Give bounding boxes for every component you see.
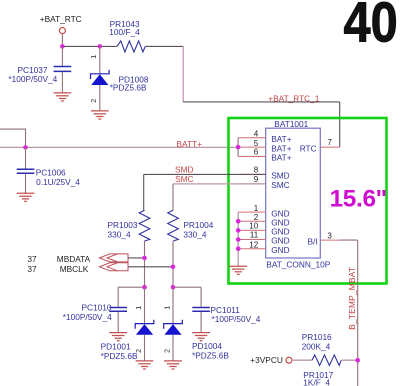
svg-text:BAT+: BAT+	[271, 153, 292, 163]
svg-text:*PDZ5.6B: *PDZ5.6B	[101, 351, 138, 361]
svg-text:15.6": 15.6"	[330, 185, 387, 212]
junction at PC1037	[60, 44, 65, 49]
svg-text:37: 37	[27, 264, 37, 274]
capacitor PC1006	[17, 147, 81, 193]
svg-text:MBCLK: MBCLK	[60, 264, 89, 274]
pin 10 BAT1001	[238, 221, 266, 230]
pin 11 BAT1001	[238, 231, 266, 240]
connector BAT1001 body	[266, 119, 331, 270]
junction at PD1008	[98, 44, 103, 49]
ground PC1010	[109, 333, 127, 341]
svg-text:SMD: SMD	[271, 171, 289, 181]
ground PD1004	[164, 361, 182, 369]
wire +BAT_RTC drop	[61, 33, 63, 46]
junction BATT+ at bar	[236, 145, 241, 150]
svg-text:200K_4: 200K_4	[302, 342, 331, 352]
svg-text:SMD: SMD	[175, 164, 193, 174]
zener diode PD1004	[163, 287, 230, 360]
wire GND bar	[237, 212, 239, 266]
wire PR1003 down	[144, 241, 146, 287]
svg-text:330_4: 330_4	[108, 230, 131, 240]
svg-text:10: 10	[249, 221, 258, 230]
svg-text:PD1001: PD1001	[101, 341, 131, 351]
junction GND bar 230.4	[236, 228, 241, 233]
wire top rail	[62, 45, 117, 47]
svg-text:BAT1001: BAT1001	[274, 119, 308, 129]
wire SMD	[144, 174, 266, 210]
resistor PR1004	[168, 210, 214, 241]
wire PR1043 to corner	[145, 45, 183, 47]
svg-text:+BAT_RTC: +BAT_RTC	[40, 14, 82, 24]
svg-text:BAT_CONN_10P: BAT_CONN_10P	[266, 259, 330, 269]
svg-text:*100P/50V_4: *100P/50V_4	[63, 312, 112, 322]
off-page connector MBDATA	[27, 254, 128, 264]
wire to PC1010	[118, 286, 144, 288]
svg-text:1K/F_4: 1K/F_4	[303, 378, 330, 386]
resistor PR1017 labels	[303, 370, 333, 386]
svg-text:330_4: 330_4	[183, 230, 206, 240]
zener diode PD1001	[101, 287, 154, 361]
junction PD1004 top	[171, 285, 176, 290]
wire +BAT_RTC_1 horizontal	[183, 101, 340, 103]
pin 2 BAT1001	[238, 213, 266, 222]
wire BATT+ rail	[0, 146, 238, 148]
resistor PR1003	[108, 210, 150, 241]
svg-text:BATT+: BATT+	[177, 139, 203, 149]
capacitor PC1011	[192, 287, 260, 332]
junction MBCLK/PR1004	[171, 265, 176, 270]
wire pin3 to column	[340, 239, 358, 241]
ground PC1037	[54, 93, 72, 101]
svg-text:8: 8	[254, 165, 259, 174]
svg-text:PR1003: PR1003	[108, 220, 138, 230]
pin 7 BAT1001	[320, 138, 339, 147]
junction MBDATA/PR1003	[142, 256, 147, 261]
svg-text:+BAT_RTC_1: +BAT_RTC_1	[268, 93, 319, 103]
pin 9 BAT1001	[238, 175, 266, 184]
svg-text:B/I: B/I	[308, 236, 318, 246]
wire down to pin 7	[339, 102, 341, 147]
pin 3 BAT1001	[320, 231, 340, 240]
junction PD1001 top	[142, 285, 147, 290]
power terminal +3VPCU	[250, 355, 292, 365]
capacitor PC1010	[63, 287, 127, 332]
svg-text:*100P/50V_4: *100P/50V_4	[212, 314, 261, 324]
wire PR1016 to junction	[341, 359, 357, 361]
svg-text:SMC: SMC	[271, 180, 289, 190]
ground PC1006	[17, 193, 35, 201]
ground PD1008	[91, 111, 109, 119]
svg-text:*PDZ5.6B: *PDZ5.6B	[192, 351, 229, 361]
ground PC1011	[192, 333, 210, 341]
svg-text:PR1016: PR1016	[302, 332, 332, 342]
svg-text:2: 2	[134, 349, 143, 353]
wire B_TEMP_MBAT column	[357, 240, 359, 386]
wire to PC1011	[173, 286, 201, 288]
svg-text:1: 1	[89, 55, 98, 59]
ground BAT1001	[229, 266, 247, 274]
svg-text:B_TEMP_MBAT: B_TEMP_MBAT	[347, 267, 357, 330]
svg-text:5: 5	[254, 139, 259, 148]
svg-text:GND: GND	[271, 245, 289, 255]
capacitor PC1037	[8, 46, 71, 92]
svg-text:1: 1	[163, 306, 172, 310]
pin 12 BAT1001	[238, 240, 266, 249]
pin 4 BAT1001	[238, 129, 266, 138]
svg-text:+3VPCU: +3VPCU	[250, 355, 283, 365]
wire left stub upper	[0, 129, 26, 147]
power terminal +BAT_RTC	[40, 14, 82, 33]
svg-text:PC1010: PC1010	[82, 303, 112, 313]
zener diode PD1008	[89, 46, 149, 110]
svg-text:7: 7	[327, 138, 332, 147]
pin 8 BAT1001	[238, 165, 266, 174]
svg-text:1: 1	[254, 204, 259, 213]
green highlight box	[229, 118, 387, 284]
svg-text:3: 3	[327, 231, 332, 240]
svg-text:1: 1	[134, 306, 143, 310]
wire terminal to PR1016	[292, 359, 312, 361]
svg-text:9: 9	[254, 175, 259, 184]
wire MBCLK	[128, 266, 173, 268]
junction at PC1006	[23, 145, 28, 150]
junction GND bar 248.7	[236, 246, 241, 251]
svg-text:4: 4	[254, 129, 259, 138]
ground PD1001	[136, 361, 154, 369]
svg-text:PD1004: PD1004	[192, 341, 222, 351]
svg-text:2: 2	[163, 349, 172, 353]
resistor PR1043	[109, 19, 145, 52]
svg-text:PR1004: PR1004	[183, 220, 213, 230]
svg-text:37: 37	[27, 254, 37, 264]
wire MBDATA	[128, 257, 145, 259]
svg-text:12: 12	[249, 240, 258, 249]
svg-text:RTC: RTC	[300, 143, 317, 153]
wire PR1004 down	[172, 241, 174, 287]
svg-text:11: 11	[250, 231, 259, 240]
svg-text:2: 2	[89, 99, 98, 103]
pin 1 BAT1001	[238, 204, 266, 213]
wire pins 4-6 bar	[237, 138, 239, 157]
svg-text:*PDZ5.6B: *PDZ5.6B	[110, 83, 147, 93]
off-page connector MBCLK	[27, 263, 128, 274]
junction GND bar 221.2	[236, 219, 241, 224]
svg-text:40: 40	[344, 0, 398, 54]
svg-text:100/F_4: 100/F_4	[109, 27, 140, 37]
pin 5 BAT1001	[238, 139, 266, 148]
pin 6 BAT1001	[238, 148, 266, 157]
junction GND bar 239.5	[236, 237, 241, 242]
resistor PR1016	[302, 332, 342, 366]
junction PR1016/B_TEMP	[355, 358, 360, 363]
svg-text:MBDATA: MBDATA	[57, 254, 91, 264]
svg-text:6: 6	[254, 148, 259, 157]
wire SMC	[173, 183, 266, 185]
svg-text:SMC: SMC	[175, 174, 193, 184]
svg-text:0.1U/25V_4: 0.1U/25V_4	[36, 177, 80, 187]
svg-text:*100P/50V_4: *100P/50V_4	[8, 74, 57, 84]
